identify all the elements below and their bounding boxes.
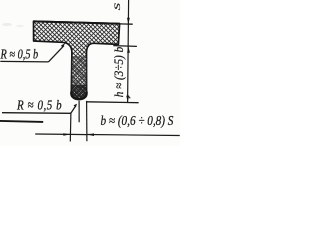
thick top edge of flange [34, 21, 120, 23]
medium hatch overlay on stem [72, 56, 87, 88]
svg-text:R ≈ 0,5 b: R ≈ 0,5 b [16, 97, 62, 113]
dense hatch overlay on stem tip [71, 85, 86, 99]
h bottom extension line [87, 101, 139, 104]
faint scan smudges top-left [2, 23, 12, 26]
arrow up below mid ext line [127, 46, 130, 52]
b dimension line middle segment [70, 133, 87, 135]
thick rounded tip of stem [71, 92, 86, 100]
svg-text:h ≈ (3÷5) b: h ≈ (3÷5) b [111, 47, 126, 97]
arrow pointing left at right ext line [87, 133, 94, 136]
arrowhead at left fillet [61, 43, 66, 48]
arrow down at h bottom [126, 96, 129, 102]
second hatch direction overlay [34, 21, 120, 99]
underline of lower label [2, 112, 71, 115]
leader to left fillet [48, 46, 64, 62]
underline of upper label [0, 60, 48, 63]
svg-text:b ≈ (0,6 ÷ 0,8) S: b ≈ (0,6 ÷ 0,8) S [101, 113, 174, 128]
arrow down at flange top ext [127, 18, 130, 24]
b-dim left extension line [69, 112, 72, 141]
small tick near bottom arrow [127, 95, 130, 99]
b dimension line right part [87, 135, 180, 136]
svg-text:S: S [112, 3, 122, 10]
arrowhead at stem tip [74, 104, 78, 108]
flange-top extension line [120, 23, 133, 25]
S/h vertical dimension line [128, 0, 129, 102]
svg-text:R ≈ 0,5 b: R ≈ 0,5 b [0, 46, 38, 62]
T-rib section body (flange + stem with fillets, hatched) [34, 21, 120, 99]
b dimension line left part [35, 133, 70, 135]
leader to stem tip [71, 106, 76, 113]
stray baseline segment bottom-left [0, 121, 43, 122]
stem centre stub line [78, 101, 80, 122]
arrow pointing right at left ext line [63, 133, 70, 136]
mid extension line [113, 45, 137, 48]
b-dim right extension line [86, 101, 88, 141]
